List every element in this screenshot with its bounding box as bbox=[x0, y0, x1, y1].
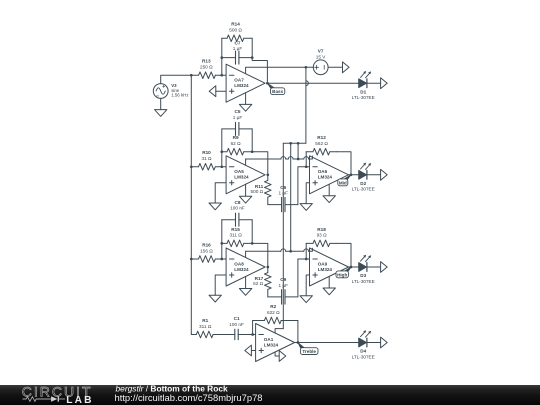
node OA9 output bbox=[350, 266, 353, 269]
resistor R10 bbox=[191, 150, 226, 170]
wire V+ row A bbox=[246, 156, 313, 159]
ground at OA5 + input bbox=[215, 183, 226, 203]
ground right of OA1 bbox=[279, 351, 286, 362]
svg-text:62 Ω: 62 Ω bbox=[253, 281, 264, 286]
wire vertical to OA8 V+ bbox=[290, 143, 292, 251]
wire OA9 V- stub bbox=[328, 277, 330, 289]
wire V7 right bbox=[328, 66, 342, 68]
node row A bbox=[297, 158, 300, 161]
wire OA8 V- stub bbox=[245, 277, 247, 289]
svg-text:OA6: OA6 bbox=[318, 169, 328, 174]
voltage source V7 bbox=[313, 49, 328, 75]
resistor R9 bbox=[222, 135, 252, 155]
wire R2 left rail bbox=[252, 321, 254, 335]
wire C1 to OA1 bbox=[238, 334, 255, 336]
ground at OA6 + input bbox=[306, 183, 309, 204]
ground at OA1 + input bbox=[245, 345, 256, 356]
svg-text:LM324: LM324 bbox=[318, 267, 333, 272]
svg-text:62 Ω: 62 Ω bbox=[231, 141, 242, 146]
LED D3 bbox=[352, 255, 375, 284]
svg-text:R1: R1 bbox=[202, 318, 208, 323]
wire R12 left rail bbox=[305, 152, 307, 167]
svg-text:V7: V7 bbox=[318, 49, 324, 54]
svg-text:100 nF: 100 nF bbox=[229, 322, 244, 327]
wire OA6 out to D2 bbox=[349, 174, 359, 176]
wire OA9 out to D3 bbox=[349, 266, 359, 268]
node OA9 -in bbox=[305, 258, 308, 261]
op-amp OA6 bbox=[310, 156, 349, 194]
ground below V3 bbox=[155, 110, 167, 117]
svg-text:D4: D4 bbox=[360, 349, 366, 354]
node C7 right bbox=[251, 56, 254, 59]
wire C5-R9 left rail bbox=[221, 129, 223, 167]
node OA8 output bbox=[266, 266, 269, 269]
node OA7 output bbox=[266, 82, 269, 85]
ground symbol OA5 +in bbox=[209, 203, 221, 210]
voltage source V3 bbox=[153, 83, 188, 98]
node R15 left bbox=[220, 242, 223, 245]
svg-text:562 Ω: 562 Ω bbox=[315, 141, 328, 146]
wire D2 cathode bbox=[367, 174, 381, 176]
svg-text:R18: R18 bbox=[317, 227, 326, 232]
wire D1 cathode bbox=[367, 82, 381, 84]
svg-text:OA9: OA9 bbox=[318, 261, 328, 266]
wire C8-R15 right rail bbox=[251, 220, 253, 244]
resistor R11 bbox=[251, 175, 272, 205]
capacitor C9 bbox=[268, 277, 298, 304]
svg-text:Bass: Bass bbox=[272, 89, 283, 94]
net flag Bass bbox=[267, 83, 284, 94]
wire D4 cathode bbox=[367, 342, 381, 344]
svg-text:D1: D1 bbox=[360, 89, 366, 94]
svg-text:R14: R14 bbox=[231, 22, 240, 27]
node R9 left bbox=[220, 150, 223, 153]
svg-text:High: High bbox=[337, 272, 347, 277]
resistor R14 bbox=[222, 22, 252, 42]
resistor R15 bbox=[222, 227, 252, 247]
node V7 bbox=[305, 66, 308, 69]
svg-text:LAB: LAB bbox=[66, 394, 94, 405]
svg-text:1 µF: 1 µF bbox=[278, 283, 288, 288]
resistor R1 bbox=[191, 318, 235, 338]
svg-text:C5: C5 bbox=[235, 109, 241, 114]
capacitor C8 bbox=[222, 200, 252, 226]
wire OA1 V+ stub bbox=[275, 329, 283, 333]
svg-text:311 Ω: 311 Ω bbox=[229, 233, 242, 238]
node rail-R16 bbox=[190, 258, 193, 261]
svg-text:C7: C7 bbox=[235, 40, 241, 45]
wire R14-C7 right rail bbox=[252, 38, 267, 83]
svg-text:R13: R13 bbox=[202, 59, 211, 64]
ground below OA7 bbox=[239, 104, 251, 111]
wire R18 left rail bbox=[305, 243, 307, 259]
wire R2 right rail bbox=[297, 321, 299, 343]
svg-text:C1: C1 bbox=[234, 316, 240, 321]
svg-text:OA5: OA5 bbox=[234, 169, 244, 174]
node row B bbox=[289, 250, 292, 253]
ground below OA6 bbox=[323, 196, 335, 203]
svg-text:15 V: 15 V bbox=[316, 55, 327, 60]
wire C8-R15 left rail bbox=[221, 220, 223, 259]
resistor R13 bbox=[191, 59, 226, 79]
svg-text:R16: R16 bbox=[202, 242, 211, 247]
svg-text:1 µF: 1 µF bbox=[233, 115, 243, 120]
wire OA7 output to D1 bbox=[267, 82, 358, 84]
svg-text:LTL-307EE: LTL-307EE bbox=[352, 279, 375, 284]
resistor R17 bbox=[253, 267, 271, 297]
capacitor C5 bbox=[222, 109, 252, 135]
node C7 left bbox=[220, 56, 223, 59]
svg-text:R15: R15 bbox=[231, 227, 240, 232]
node rail-R10 bbox=[190, 165, 193, 168]
svg-text:C9: C9 bbox=[280, 277, 286, 282]
node 15V-b bbox=[297, 142, 300, 145]
wire OA5 V+ stub bbox=[245, 159, 247, 165]
svg-text:D2: D2 bbox=[360, 181, 366, 186]
svg-text:Treble: Treble bbox=[302, 349, 316, 354]
wire OA6 V- stub bbox=[328, 184, 330, 196]
node OA8 -in bbox=[220, 258, 223, 261]
svg-text:156 Ω: 156 Ω bbox=[200, 248, 213, 253]
svg-text:LM324: LM324 bbox=[318, 175, 333, 180]
wire R18 right rail bbox=[336, 243, 351, 267]
svg-text:500 Ω: 500 Ω bbox=[229, 28, 242, 33]
wire R12 right rail bbox=[336, 152, 351, 175]
node input junction bbox=[190, 74, 193, 77]
node OA1 output bbox=[297, 341, 300, 344]
wire long vertical to OA1 V+ bbox=[282, 143, 284, 328]
svg-text:Mid: Mid bbox=[339, 180, 347, 185]
svg-text:LM324: LM324 bbox=[234, 175, 249, 180]
svg-text:C6: C6 bbox=[280, 185, 286, 190]
svg-text:R17: R17 bbox=[255, 276, 264, 281]
wire C5-R9 right rail bbox=[251, 129, 253, 152]
wire C9 to OA9 -in bbox=[298, 259, 310, 297]
wire D3 cathode bbox=[367, 266, 381, 268]
logo circuit squiggle bbox=[23, 396, 66, 401]
CircuitLab logo wordmark bbox=[22, 383, 94, 405]
wire V+ row B bbox=[246, 248, 313, 251]
capacitor C6 bbox=[268, 185, 298, 212]
resistor R18 bbox=[306, 227, 336, 247]
wire OA8 V+ stub bbox=[245, 251, 247, 257]
hop 15V rail over bass wire bbox=[306, 81, 308, 86]
ground symbol OA8 +in bbox=[209, 295, 221, 302]
capacitor C1 bbox=[229, 316, 244, 340]
ground below OA8 bbox=[239, 289, 251, 296]
node R15 right bbox=[251, 242, 254, 245]
net flag Treble bbox=[298, 343, 318, 355]
svg-text:OA1: OA1 bbox=[264, 337, 274, 342]
wire OA1 out to D4 bbox=[295, 342, 359, 344]
svg-text:LM324: LM324 bbox=[234, 83, 249, 88]
svg-text:1.56 kHz: 1.56 kHz bbox=[171, 92, 188, 97]
svg-text:1 µF: 1 µF bbox=[278, 191, 288, 196]
node OA5 output bbox=[266, 173, 269, 176]
node R9 right bbox=[251, 150, 254, 153]
net flag Mid bbox=[338, 175, 351, 186]
svg-text:100 nF: 100 nF bbox=[230, 206, 245, 211]
svg-text:93 Ω: 93 Ω bbox=[317, 233, 328, 238]
op-amp OA7 bbox=[226, 64, 265, 102]
resistor R2 bbox=[253, 304, 298, 324]
svg-text:LTL-307EE: LTL-307EE bbox=[352, 95, 375, 100]
LED D1 bbox=[352, 71, 375, 100]
svg-text:LTL-307EE: LTL-307EE bbox=[352, 354, 375, 359]
wire V3 bottom bbox=[160, 98, 162, 109]
ground at OA7 + input bbox=[209, 86, 226, 97]
ground right of D2 bbox=[381, 169, 388, 180]
svg-text:LM324: LM324 bbox=[234, 267, 249, 272]
svg-text:R11: R11 bbox=[255, 184, 264, 189]
svg-text:http://circuitlab.com/c758mbjr: http://circuitlab.com/c758mbjru7p78 bbox=[115, 392, 263, 403]
LED D2 bbox=[352, 163, 375, 192]
op-amp OA1 bbox=[256, 324, 295, 362]
ground below OA9 bbox=[323, 288, 335, 295]
svg-text:250 Ω: 250 Ω bbox=[200, 65, 213, 70]
svg-text:311 Ω: 311 Ω bbox=[199, 324, 212, 329]
svg-text:R12: R12 bbox=[317, 135, 326, 140]
svg-text:R10: R10 bbox=[202, 150, 211, 155]
wire V7 to node bbox=[306, 66, 313, 68]
node OA6 -in bbox=[305, 165, 308, 168]
wire V3 top to input node bbox=[161, 75, 192, 83]
wire OA1 V- stub bbox=[275, 352, 279, 356]
node R13-OA7 junction bbox=[220, 74, 223, 77]
node OA5 -in bbox=[220, 165, 223, 168]
resistor R12 bbox=[306, 135, 336, 155]
wire R9 to OA5 out bbox=[252, 152, 268, 175]
ground right of V7 bbox=[343, 62, 350, 73]
ground at OA9 + input bbox=[306, 275, 309, 296]
svg-text:622 Ω: 622 Ω bbox=[267, 310, 280, 315]
ground below OA5 bbox=[239, 196, 251, 203]
ground right of D3 bbox=[381, 262, 388, 273]
wire R15 to OA8 out bbox=[252, 243, 268, 267]
op-amp OA5 bbox=[226, 156, 265, 194]
svg-text:C8: C8 bbox=[235, 200, 241, 205]
svg-text:1 µF: 1 µF bbox=[233, 46, 243, 51]
svg-text:D3: D3 bbox=[360, 273, 366, 278]
svg-text:R9: R9 bbox=[233, 135, 239, 140]
svg-text:LM324: LM324 bbox=[264, 342, 279, 347]
svg-text:OA7: OA7 bbox=[234, 78, 244, 83]
wire OA7 V+ stub bbox=[246, 67, 306, 73]
wire 15V drop bbox=[305, 67, 307, 143]
ground right of D1 bbox=[381, 78, 388, 89]
node OA6 output bbox=[350, 173, 353, 176]
ground symbol OA9 +in bbox=[300, 296, 312, 303]
wire C6 to OA6 -in bbox=[298, 167, 310, 205]
wire vertical to OA5 V+ bbox=[297, 143, 299, 159]
svg-text:LTL-307EE: LTL-307EE bbox=[352, 187, 375, 192]
wire input rail bbox=[190, 75, 192, 333]
wire OA5 V- stub bbox=[245, 184, 247, 196]
ground right of D4 bbox=[381, 337, 388, 348]
node OA1 -in bbox=[251, 333, 254, 336]
svg-text:R2: R2 bbox=[270, 304, 276, 309]
op-amp OA9 bbox=[310, 248, 349, 286]
svg-text:31 Ω: 31 Ω bbox=[201, 156, 212, 161]
wire 15V horizontal bbox=[283, 142, 306, 144]
capacitor C7 bbox=[222, 40, 252, 64]
footer credit text bbox=[115, 383, 263, 403]
net flag High bbox=[336, 267, 351, 278]
svg-text:OA8: OA8 bbox=[234, 261, 244, 266]
node 15V-a bbox=[289, 142, 292, 145]
op-amp OA8 bbox=[226, 248, 265, 286]
ground at OA8 + input bbox=[215, 275, 226, 295]
LED D4 bbox=[352, 330, 375, 359]
resistor R16 bbox=[191, 242, 226, 262]
svg-text:500 Ω: 500 Ω bbox=[251, 189, 264, 194]
wire R14-C7 left rail bbox=[221, 38, 223, 75]
wire OA7 V- stub bbox=[245, 93, 247, 105]
ground symbol OA6 +in bbox=[300, 204, 312, 211]
